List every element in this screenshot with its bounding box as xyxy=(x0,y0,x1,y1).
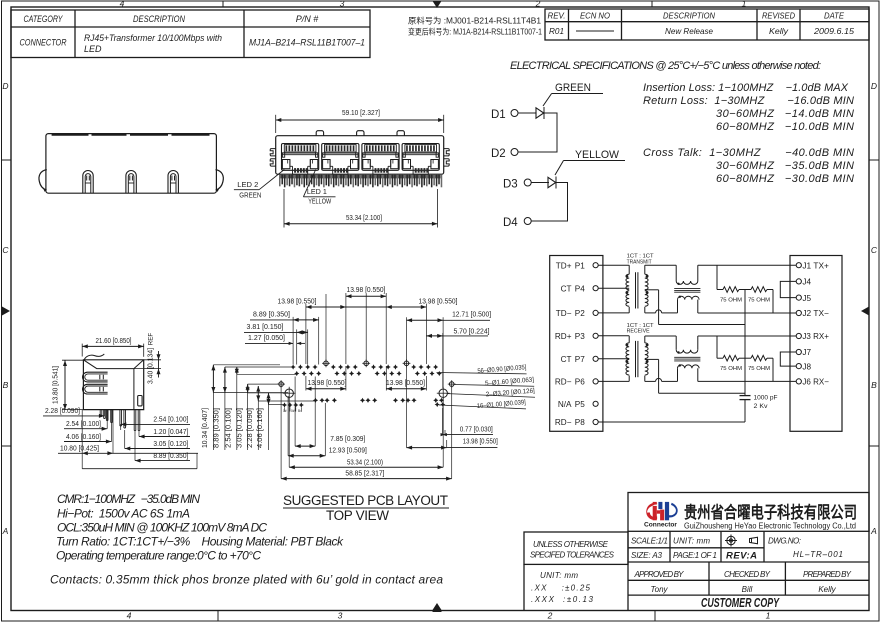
svg-text:OCL:350uH MIN @ 100KHZ 100: OCL:350uH MIN @ 100KHZ 100mV 8mA DC xyxy=(57,521,267,535)
svg-text:2 Kv: 2 Kv xyxy=(754,403,769,410)
svg-text:D3: D3 xyxy=(503,179,518,191)
svg-text:GREEN: GREEN xyxy=(555,82,591,94)
svg-text:10.80 [0.425]: 10.80 [0.425] xyxy=(60,444,99,453)
svg-text:2.54 [0.100]: 2.54 [0.100] xyxy=(66,419,101,428)
svg-text:1.20 [0.047]: 1.20 [0.047] xyxy=(153,427,188,436)
svg-text:UNIT: mm: UNIT: mm xyxy=(673,537,710,546)
svg-text:J4: J4 xyxy=(802,278,811,287)
svg-text:7.85 [0.309]: 7.85 [0.309] xyxy=(330,434,365,443)
svg-text:Tony: Tony xyxy=(650,585,668,594)
svg-text:P6: P6 xyxy=(575,378,585,387)
svg-text:1000 pF: 1000 pF xyxy=(754,395,778,402)
svg-text:1#: 1# xyxy=(283,409,287,413)
svg-text:B: B xyxy=(871,380,877,390)
svg-text:13.98 [0.550]: 13.98 [0.550] xyxy=(386,378,425,387)
svg-text:D1: D1 xyxy=(491,109,506,121)
svg-text:Kelly: Kelly xyxy=(818,585,836,594)
svg-text:DESCRIPTION: DESCRIPTION xyxy=(663,11,716,21)
svg-text:Return Loss: 1−30MHZ −1: Return Loss: 1−30MHZ −16.0dB MIN xyxy=(643,95,854,107)
svg-text:SCALE:1/1: SCALE:1/1 xyxy=(631,537,668,546)
svg-text:J7: J7 xyxy=(802,348,811,357)
svg-text:DWG.NO:: DWG.NO: xyxy=(768,537,801,546)
svg-text:1: 1 xyxy=(742,0,747,9)
svg-text:CHECKED BY: CHECKED BY xyxy=(724,570,771,579)
svg-text:4: 4 xyxy=(127,611,132,621)
svg-text:59.10 [2.327]: 59.10 [2.327] xyxy=(342,108,380,117)
svg-text:C: C xyxy=(871,245,878,255)
svg-text:P3: P3 xyxy=(575,332,585,341)
svg-text:LED 2: LED 2 xyxy=(237,180,258,189)
svg-text:P2: P2 xyxy=(575,309,585,318)
svg-text:0.77 [0.030]: 0.77 [0.030] xyxy=(460,424,493,433)
svg-text:SIZE: A3: SIZE: A3 xyxy=(631,551,663,560)
svg-text:REVISED: REVISED xyxy=(762,11,795,21)
svg-text:A: A xyxy=(2,526,9,536)
svg-text:3.81 [0.150]: 3.81 [0.150] xyxy=(247,322,284,331)
svg-text:J6 RX−: J6 RX− xyxy=(802,378,829,387)
svg-text:D: D xyxy=(2,81,8,91)
svg-text:13.98 [0.550]: 13.98 [0.550] xyxy=(278,296,317,305)
svg-text:UNLESS OTHERWISE: UNLESS OTHERWISE xyxy=(533,540,609,549)
svg-text:D4: D4 xyxy=(503,217,518,229)
svg-text:变更后料号为: MJ1A-B214-RSL11B1T007-: 变更后料号为: MJ1A-B214-RSL11B1T007-1 xyxy=(408,27,542,37)
svg-text:R01: R01 xyxy=(549,26,564,36)
svg-text:UNIT: mm: UNIT: mm xyxy=(540,571,578,580)
svg-text:3.05 [0.120]: 3.05 [0.120] xyxy=(234,408,243,448)
svg-text:8.89 [0.350]: 8.89 [0.350] xyxy=(253,309,290,318)
svg-text:4.06 [0.160]: 4.06 [0.160] xyxy=(66,432,101,441)
svg-text:B4: B4 xyxy=(298,409,302,413)
svg-text:D2: D2 xyxy=(491,148,506,160)
svg-text:75 OHM: 75 OHM xyxy=(720,366,743,372)
svg-text:8.89 [0.350]: 8.89 [0.350] xyxy=(153,451,188,460)
svg-text:C: C xyxy=(2,245,9,255)
svg-text:HL–TR–001: HL–TR–001 xyxy=(793,550,843,559)
svg-text:J5: J5 xyxy=(802,294,811,303)
svg-text:J8: J8 xyxy=(802,362,811,371)
svg-text:CMR:1−100MHZ −35.0dB MIN: CMR:1−100MHZ −35.0dB MIN xyxy=(57,492,200,506)
svg-text:CT: CT xyxy=(561,355,572,364)
svg-text:1: 1 xyxy=(766,611,771,621)
svg-text:2.54 [0.100]: 2.54 [0.100] xyxy=(153,415,188,424)
svg-text:60−80MHZ −10.0dB MIN: 60−80MHZ −10.0dB MIN xyxy=(716,121,854,133)
svg-text:3: 3 xyxy=(338,611,343,621)
svg-text:GuiZhousheng HeYao Electronic: GuiZhousheng HeYao Electronic Technology… xyxy=(684,522,856,531)
svg-text:0#: 0# xyxy=(291,409,295,413)
svg-text:13.98 [0.550]: 13.98 [0.550] xyxy=(308,378,347,387)
svg-text:2.28 [0.090]: 2.28 [0.090] xyxy=(245,408,254,448)
svg-text:Operating temperature range:: Operating temperature range:0°C to +70°C xyxy=(56,549,261,563)
svg-text:RJ45+Transformer 10/100Mbps: RJ45+Transformer 10/100Mbps with xyxy=(84,33,222,43)
svg-text:P5: P5 xyxy=(575,400,585,409)
svg-text:5.70 [0.224]: 5.70 [0.224] xyxy=(454,326,490,335)
svg-text:TOP VIEW: TOP VIEW xyxy=(326,508,389,523)
svg-text:Kelly: Kelly xyxy=(769,26,789,36)
svg-text:53.34 (2.100): 53.34 (2.100) xyxy=(347,457,383,466)
svg-text:Insertion Loss: 1−100MHZ −1: Insertion Loss: 1−100MHZ −1.0dB MAX xyxy=(643,82,849,94)
svg-text:Connector: Connector xyxy=(644,522,678,529)
svg-text:REV.: REV. xyxy=(548,11,566,21)
svg-text:P8: P8 xyxy=(575,418,585,427)
svg-text:RECEIVE: RECEIVE xyxy=(627,329,650,335)
svg-text:A: A xyxy=(870,526,877,536)
svg-text:New Release: New Release xyxy=(665,26,713,36)
svg-text:PAGE:1 OF 1: PAGE:1 OF 1 xyxy=(673,551,717,560)
svg-text:13.98 [0.550]: 13.98 [0.550] xyxy=(419,296,458,305)
svg-text:RD+: RD+ xyxy=(555,332,572,341)
svg-text:CONNECTOR: CONNECTOR xyxy=(20,38,67,48)
svg-text:P4: P4 xyxy=(575,284,585,293)
svg-text:贵州省合曜电子科技有限公司: 贵州省合曜电子科技有限公司 xyxy=(684,502,857,522)
svg-text:SPECIFED TOLERANCES: SPECIFED TOLERANCES xyxy=(530,551,615,560)
svg-text:DESCRIPTION: DESCRIPTION xyxy=(133,14,185,24)
svg-text:30−60MHZ −14.0dB MIN: 30−60MHZ −14.0dB MIN xyxy=(716,108,854,120)
svg-text:2.54 [0.100]: 2.54 [0.100] xyxy=(224,408,233,448)
svg-text:CUSTOMER COPY: CUSTOMER COPY xyxy=(701,596,780,610)
svg-text:REF: REF xyxy=(148,333,155,346)
svg-text:13.98 [0.550]: 13.98 [0.550] xyxy=(463,437,498,446)
svg-text:Hi−Pot: 1500v AC 6S 1mA: Hi−Pot: 1500v AC 6S 1mA xyxy=(57,507,190,521)
svg-text:YELLOW: YELLOW xyxy=(575,149,620,161)
svg-text:53.34 [2.100]: 53.34 [2.100] xyxy=(346,213,382,222)
svg-text:原料号为 :MJ001-B214-RSL11T4B1: 原料号为 :MJ001-B214-RSL11T4B1 xyxy=(408,16,542,26)
svg-text:ECN NO: ECN NO xyxy=(580,11,610,21)
svg-text:10.34 [0.407]: 10.34 [0.407] xyxy=(200,408,209,448)
svg-text:YELLOW: YELLOW xyxy=(308,196,332,205)
svg-text:8.89 [0.350]: 8.89 [0.350] xyxy=(211,408,220,448)
svg-text:Turn Ratio: 1CT:1CT+/−3% H: Turn Ratio: 1CT:1CT+/−3% Housing Materia… xyxy=(56,535,344,549)
svg-text:2: 2 xyxy=(535,0,541,9)
svg-text:3.40 [0.134]: 3.40 [0.134] xyxy=(146,348,155,384)
svg-text:B: B xyxy=(3,380,9,390)
svg-text:TD−: TD− xyxy=(556,309,572,318)
svg-text:PREPARED BY: PREPARED BY xyxy=(803,570,852,579)
svg-text:TRANSMIT: TRANSMIT xyxy=(627,259,653,265)
svg-text:J3 RX+: J3 RX+ xyxy=(802,332,829,341)
svg-text:REV:A: REV:A xyxy=(726,551,757,562)
svg-text:Contacts: 0.35mm thick phos: Contacts: 0.35mm thick phos bronze plate… xyxy=(50,573,443,587)
svg-text:ELECTRICAL SPECIFICATIONS @: ELECTRICAL SPECIFICATIONS @ 25°C+/−5°C u… xyxy=(510,60,821,72)
svg-text:60−80MHZ −30.0dB MIN: 60−80MHZ −30.0dB MIN xyxy=(716,173,854,185)
svg-text:1.27 [0.050]: 1.27 [0.050] xyxy=(248,333,285,342)
svg-text:CATEGORY: CATEGORY xyxy=(24,14,64,24)
svg-text:APPROVED BY: APPROVED BY xyxy=(634,570,685,579)
svg-text:Cross Talk: 1−30MHZ −40: Cross Talk: 1−30MHZ −40.0dB MIN xyxy=(643,147,854,159)
svg-text:P7: P7 xyxy=(575,355,585,364)
svg-text:58.85 [2.317]: 58.85 [2.317] xyxy=(345,469,384,478)
svg-text:2.28 [0.090]: 2.28 [0.090] xyxy=(45,406,80,415)
svg-text:P1: P1 xyxy=(575,261,585,270)
svg-text:3: 3 xyxy=(340,0,345,9)
svg-text:LED: LED xyxy=(84,44,102,54)
svg-text:2: 2 xyxy=(547,611,553,621)
svg-text:13.80 [0.541]: 13.80 [0.541] xyxy=(51,366,60,404)
svg-text:75 OHM: 75 OHM xyxy=(748,298,771,304)
svg-text:Bill: Bill xyxy=(742,585,753,594)
svg-text:21.60 [0.850]: 21.60 [0.850] xyxy=(96,336,132,345)
svg-text:J1 TX+: J1 TX+ xyxy=(802,261,829,270)
svg-text:3.05 [0.120]: 3.05 [0.120] xyxy=(153,439,188,448)
svg-text:RD−: RD− xyxy=(555,378,572,387)
svg-text:CT: CT xyxy=(561,284,572,293)
svg-text:J2 TX−: J2 TX− xyxy=(802,309,829,318)
svg-text:D: D xyxy=(871,81,877,91)
svg-text:12.71 [0.500]: 12.71 [0.500] xyxy=(452,309,491,318)
svg-text:P/N #: P/N # xyxy=(296,14,320,24)
svg-text:LED 1: LED 1 xyxy=(307,187,327,196)
svg-text:75 OHM: 75 OHM xyxy=(720,298,743,304)
svg-text:TD+: TD+ xyxy=(556,261,572,270)
svg-text:GREEN: GREEN xyxy=(239,191,261,200)
svg-text:N/A: N/A xyxy=(558,400,572,409)
svg-text:30−60MHZ −35.0dB MIN: 30−60MHZ −35.0dB MIN xyxy=(716,160,854,172)
svg-text:13.98 [0.550]: 13.98 [0.550] xyxy=(347,285,386,294)
svg-text:SUGGESTED PCB LAYOUT: SUGGESTED PCB LAYOUT xyxy=(283,493,448,508)
svg-text:12.93 [0.509]: 12.93 [0.509] xyxy=(329,445,367,454)
svg-text:RD−: RD− xyxy=(555,418,572,427)
svg-text:DATE: DATE xyxy=(824,11,844,21)
svg-text:2009.6.15: 2009.6.15 xyxy=(813,26,854,36)
svg-text:4.06 [0.160]: 4.06 [0.160] xyxy=(255,408,264,448)
svg-text:MJ1A–B214–RSL11B1T007–1: MJ1A–B214–RSL11B1T007–1 xyxy=(249,38,365,48)
svg-text:75 OHM: 75 OHM xyxy=(748,366,771,372)
svg-text:4: 4 xyxy=(120,0,125,9)
